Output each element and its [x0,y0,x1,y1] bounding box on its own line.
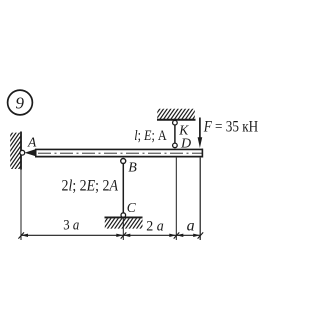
left wall hatching [9,120,21,188]
ceiling support hatching [156,58,196,177]
beam left pointed tip [25,149,37,157]
force arrow F head [198,137,203,148]
left wall face line [20,132,22,170]
svg-text:K: K [178,123,189,138]
dimension arrows at C extension [116,234,123,237]
pin K [173,120,178,125]
ground support hatching [104,167,144,286]
dimension arrows at D extension [169,234,176,237]
beam right end cap [201,149,203,158]
pin C [121,213,126,218]
pin D [173,143,178,148]
svg-text:C: C [127,200,137,215]
svg-text:2 a: 2 a [146,218,164,234]
pin B [121,159,126,164]
dimension tick slashes at junctions [18,232,203,238]
svg-text:a: a [187,218,195,235]
rod BC [122,164,124,213]
extension line below C [122,218,124,240]
svg-text:2l; 2E; 2A: 2l; 2E; 2A [62,177,119,194]
right extension line (under F) [199,158,201,240]
pin A [20,150,25,155]
beam dash-dot centerline [38,152,202,154]
ceiling support line [157,119,196,121]
dimension arrow at left end [21,234,28,237]
svg-text:F = 35 кН: F = 35 кН [203,118,259,135]
svg-text:A: A [27,134,37,149]
dimension line [21,234,200,236]
problem number badge: circle with 9 [8,90,33,115]
extension line below D [175,158,177,240]
dimension arrow at right end [193,234,200,237]
ground support line at C [105,216,143,218]
svg-text:D: D [180,137,191,152]
svg-text:9: 9 [16,93,25,112]
left extension line (below wall to dimension line) [20,170,22,241]
svg-text:3 a: 3 a [63,218,79,234]
force arrow F shaft [199,118,201,140]
svg-text:B: B [128,161,137,176]
svg-text:l; E; А: l; E; А [134,128,167,144]
beam bottom edge [35,156,203,158]
beam top edge [35,148,203,150]
rod KD [174,125,176,143]
